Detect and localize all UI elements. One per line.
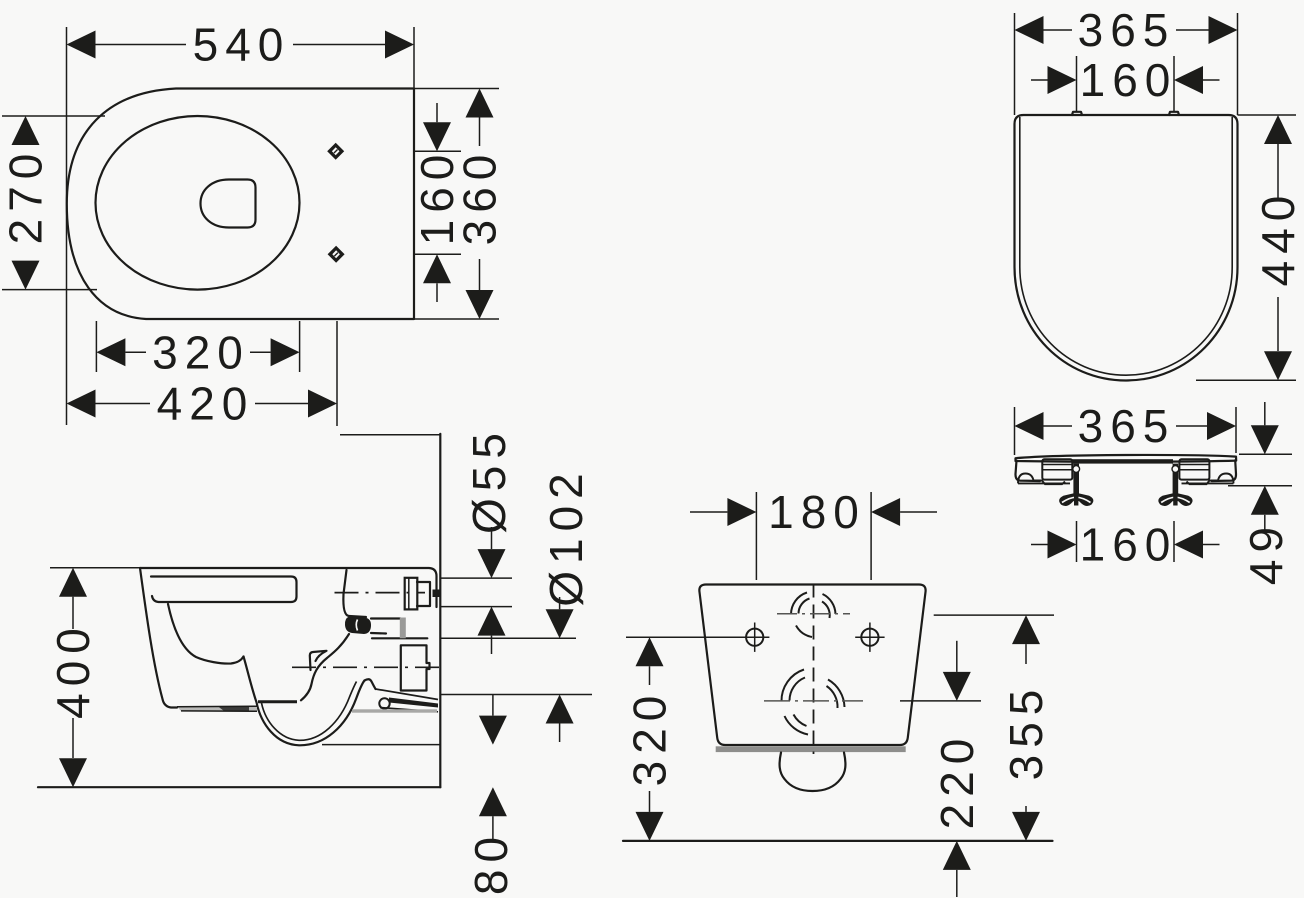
side view: outlet axis dash-dot <box>292 666 442 668</box>
dim O55 <box>463 426 515 654</box>
WC top view: drain outline <box>201 180 256 228</box>
extension line seat hinge left <box>1076 521 1078 562</box>
side view: outlet slanted pipe thin top line <box>376 689 439 700</box>
dim 355 <box>1000 615 1052 841</box>
extension line left (540/420) <box>66 27 68 425</box>
seat side: left hinge bolt <box>1060 464 1093 506</box>
wall top extension line <box>340 434 440 436</box>
WC top view: outer ceramic outline <box>67 89 414 320</box>
svg-text:355: 355 <box>1000 683 1052 781</box>
svg-text:440: 440 <box>1252 189 1304 287</box>
rear view: inlet axis dash-dot <box>777 613 850 615</box>
extension line outlet axis right <box>900 700 981 702</box>
side view: drain pipe rect at wall <box>401 645 430 690</box>
extension line holes height <box>626 636 744 638</box>
side view: seat fixing nut (black) <box>345 617 371 635</box>
side view: inlet axis dash-dot <box>335 592 426 594</box>
dim 400 <box>47 568 99 788</box>
dim 365 top <box>1015 4 1238 56</box>
seat side: left end cap <box>1015 461 1040 481</box>
seat side: right hinge bolt <box>1159 464 1192 506</box>
extension line upper screw <box>414 150 461 152</box>
extension line pipe bottom <box>440 606 512 608</box>
side view: inlet dark wall fitting <box>433 590 441 598</box>
side view: grey connector bar <box>400 618 406 639</box>
side view: saddle to outlet <box>365 679 376 689</box>
lid top view: inner contour line <box>1020 117 1232 375</box>
rear view: bottom grey band <box>716 746 906 752</box>
side view: sump right wall into U <box>244 657 365 746</box>
extension line WC right lower <box>336 321 338 426</box>
rear view: outlet hidden arcs <box>781 670 844 735</box>
dim 360 vertical <box>454 89 506 320</box>
dim 160 vertical <box>411 103 463 302</box>
side view: back section inner outline <box>343 570 366 617</box>
extension line outlet bottom <box>322 744 440 746</box>
rear view: center dashed line <box>813 584 815 755</box>
extension line lid top right <box>1238 114 1297 116</box>
rear view: inlet hidden arcs <box>791 593 836 638</box>
extension line rim left <box>95 321 97 372</box>
svg-text:360: 360 <box>454 148 506 246</box>
extension line WC top edge to right <box>414 88 499 90</box>
side view: inlet flange inner line <box>408 578 410 610</box>
svg-text:160: 160 <box>1080 519 1178 571</box>
seat side: right seat block <box>1179 459 1209 479</box>
floor line <box>38 786 440 788</box>
dim 440 <box>1252 115 1304 380</box>
extension line inlet height right <box>934 614 1054 616</box>
side view: bracket bottom edge <box>372 637 427 639</box>
dim 160 seat <box>1031 519 1220 571</box>
seat side: left seat block <box>1042 459 1072 479</box>
svg-text:270: 270 <box>0 147 52 245</box>
svg-text:365: 365 <box>1078 400 1176 452</box>
side view: ceramic top edge <box>140 568 437 607</box>
side view: outlet junction circle <box>379 698 389 708</box>
dim 220 <box>931 641 983 897</box>
rear view: left fixing hole <box>740 623 769 652</box>
extension line rear hole left <box>755 492 757 580</box>
svg-text:540: 540 <box>193 19 291 71</box>
rear view: body trapezoid <box>699 585 925 746</box>
extension line lid right <box>1237 13 1239 115</box>
dim 80 upper arrow <box>479 695 507 745</box>
WC top view: fixing screw upper <box>327 143 344 160</box>
extension line seat right <box>1235 407 1237 453</box>
side view: inlet pipe flange <box>405 578 418 610</box>
svg-text:180: 180 <box>768 486 866 538</box>
seat side: right bumper feet <box>1182 474 1234 485</box>
extension line drain top <box>440 637 576 639</box>
extension line lid left <box>1014 13 1016 115</box>
seat side: dark hinge gap band <box>1072 459 1173 463</box>
side view: weir flap <box>310 651 327 670</box>
side view: inlet pipe to wall <box>417 582 430 606</box>
extension line top of rim ellipse <box>2 115 105 117</box>
side view: fixing channel line <box>371 617 401 619</box>
dim 420 <box>67 378 338 430</box>
svg-text:320: 320 <box>152 326 250 378</box>
svg-text:220: 220 <box>931 732 983 830</box>
seat side: right end cap <box>1212 460 1237 481</box>
WC top view: fixing screw lower <box>328 246 345 263</box>
side view: fixing channel lower line <box>371 632 386 635</box>
extension line hinge left <box>1076 56 1078 112</box>
dim 160 lid <box>1031 54 1220 106</box>
side view: grey band under outlet <box>352 709 437 712</box>
extension line WC bottom edge to right <box>414 318 499 320</box>
rear view: right fixing hole <box>855 623 884 652</box>
svg-text:160: 160 <box>1080 54 1178 106</box>
wall line <box>439 434 441 787</box>
side view: outlet slanted pipe lower line <box>380 708 438 712</box>
dim 80 lower arrow and text <box>465 787 517 895</box>
side view: front edge <box>140 568 177 708</box>
dim 180 <box>690 486 937 538</box>
rear view: drain stub <box>780 753 846 792</box>
extension line hinge right <box>1173 56 1175 112</box>
extension line bottom of rim ellipse <box>2 289 97 291</box>
svg-text:49: 49 <box>1240 520 1292 585</box>
extension line pipe top <box>440 577 512 579</box>
extension line seat left <box>1014 407 1016 455</box>
rear view floor line <box>623 840 1053 842</box>
extension line rim right <box>299 321 301 372</box>
side view: inner bowl curve <box>168 604 244 664</box>
extension line seat hinge right <box>1173 521 1175 562</box>
extension line lower screw <box>414 253 461 255</box>
extension line seat bottom right <box>1228 485 1292 487</box>
lid hinge nub left <box>1072 112 1082 115</box>
dim 270 <box>0 116 52 290</box>
dim 49 <box>1240 402 1292 585</box>
dim 320 rear <box>624 637 676 841</box>
seat side: lid profile band <box>1016 455 1237 462</box>
svg-text:Ø55: Ø55 <box>463 426 515 534</box>
extension line lid bottom right <box>1196 379 1296 381</box>
svg-text:365: 365 <box>1078 4 1176 56</box>
side view: U inner parallel curve <box>262 682 357 741</box>
extension line WC top front <box>50 567 140 569</box>
dim O102 <box>540 466 592 742</box>
svg-text:420: 420 <box>157 378 255 430</box>
svg-text:400: 400 <box>47 621 99 719</box>
dim 320 <box>96 326 299 378</box>
rear view: outlet axis dash-dot <box>764 700 863 702</box>
dim 540 <box>67 19 415 71</box>
lid hinge nub right <box>1169 112 1179 115</box>
svg-text:320: 320 <box>624 689 676 787</box>
side view: rim cross-section rectangle <box>151 577 297 603</box>
extension line right vertical above WC <box>413 27 415 89</box>
svg-text:80: 80 <box>465 830 517 895</box>
side view: outlet slanted pipe dark band <box>389 698 438 708</box>
WC top view: bowl rim ellipse <box>96 116 300 290</box>
dim 365 seat <box>1015 400 1237 452</box>
extension line seat top right <box>1239 453 1292 455</box>
svg-text:Ø102: Ø102 <box>540 466 592 607</box>
seat side: left bumper feet <box>1018 474 1070 485</box>
side view: bowl flat bottom line <box>258 700 297 703</box>
extension line drain bottom <box>440 694 592 696</box>
lid top view: outer outline <box>1015 115 1238 381</box>
side view: front bottom band <box>177 706 257 711</box>
side view: trap rear S-curve from nut <box>301 634 349 700</box>
extension line rear hole right <box>870 492 872 580</box>
